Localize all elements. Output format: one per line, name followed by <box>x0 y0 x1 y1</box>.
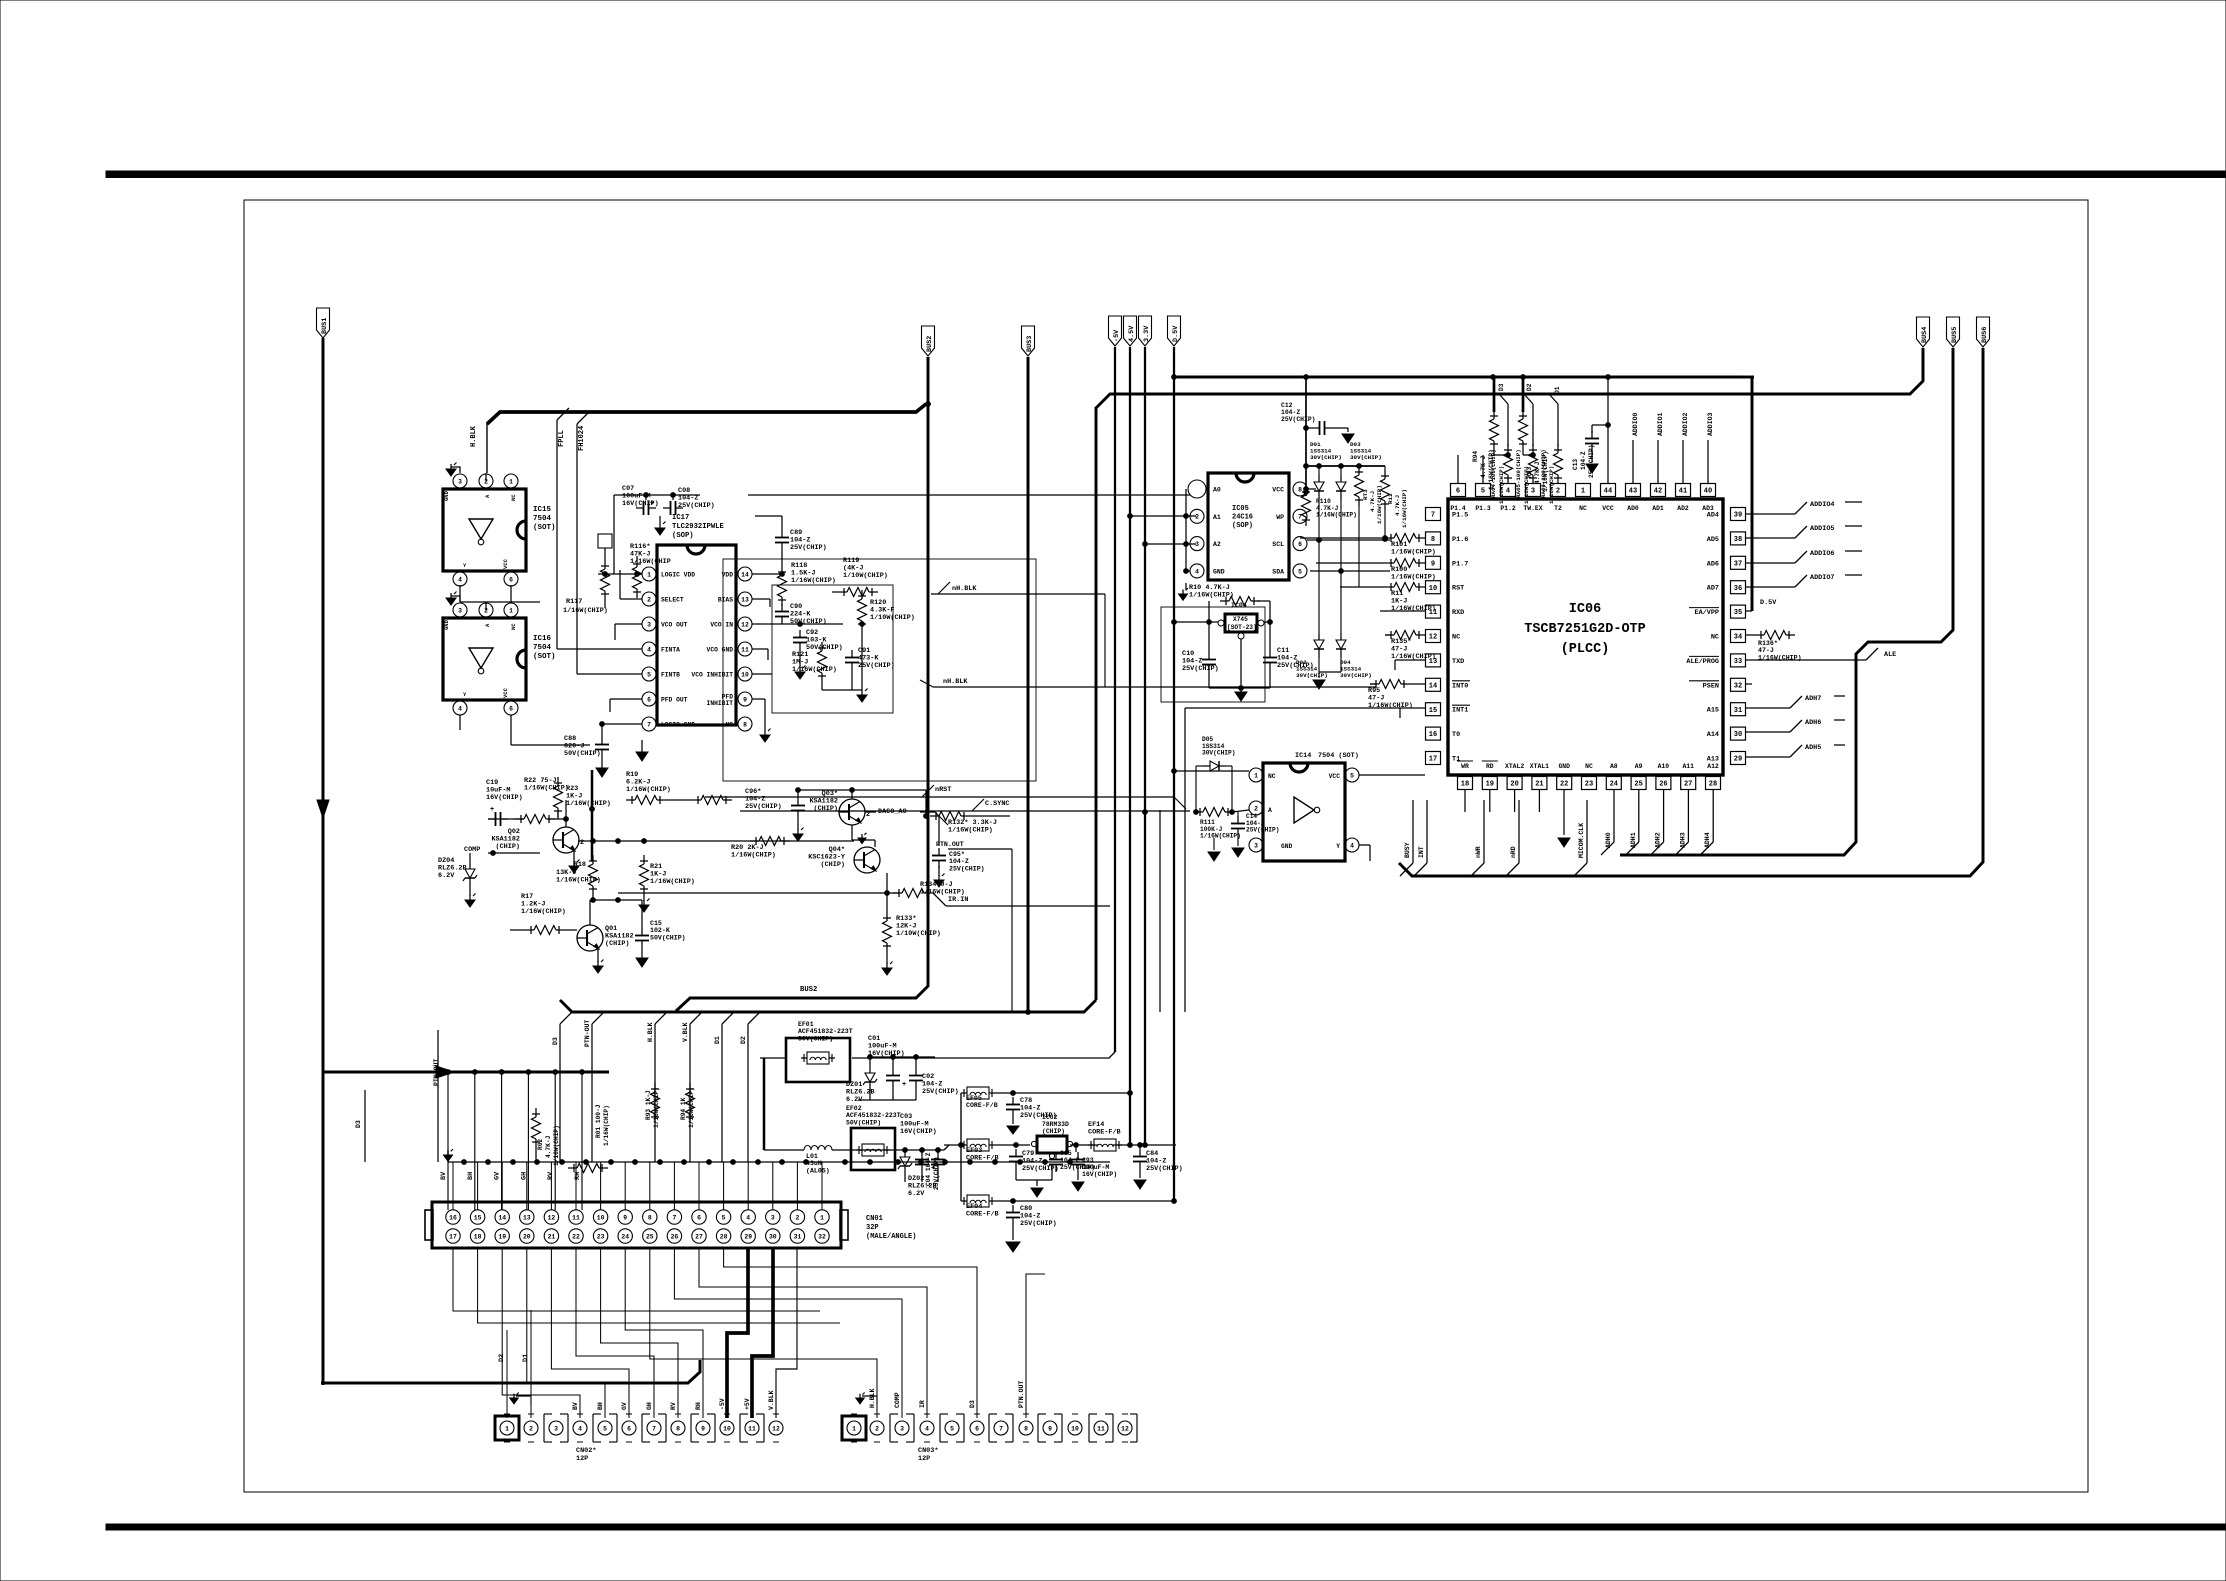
wire drop BH <box>467 1070 477 1210</box>
label nRD <box>1506 800 1519 876</box>
resistor RA64 <box>1490 444 1513 504</box>
svg-text:ADDIO0: ADDIO0 <box>1632 412 1639 436</box>
svg-text:nH.BLK: nH.BLK <box>952 585 977 593</box>
svg-text:104-Z: 104-Z <box>1580 451 1587 470</box>
svg-text:IR: IR <box>919 1400 926 1408</box>
svg-text:VCC: VCC <box>502 687 509 698</box>
wire IC14 out <box>1359 845 1370 861</box>
svg-text:T0: T0 <box>1452 731 1460 739</box>
svg-text:14: 14 <box>741 571 749 578</box>
svg-text:17: 17 <box>449 1233 457 1240</box>
filter EF01 <box>760 1021 853 1082</box>
transistor Q04 <box>808 846 880 873</box>
svg-text:R94 1K: R94 1K <box>680 1097 687 1120</box>
svg-text:AD4: AD4 <box>1707 512 1719 520</box>
svg-text:BUS2: BUS2 <box>926 336 934 352</box>
svg-text:1/16W(CHIP): 1/16W(CHIP) <box>688 1087 695 1128</box>
resistor RA65 <box>1515 444 1538 504</box>
svg-text:MICOM.CLK: MICOM.CLK <box>1578 823 1585 858</box>
svg-text:11: 11 <box>748 1425 756 1432</box>
ground C93 <box>1072 1172 1084 1191</box>
capacitor C07 <box>622 485 659 515</box>
resistor R132 <box>930 812 997 835</box>
svg-text:1/10W(CHIP): 1/10W(CHIP) <box>896 930 941 938</box>
inverter IC14 7504 <box>1249 752 1359 861</box>
svg-text:12: 12 <box>548 1214 556 1221</box>
svg-text:P1.2: P1.2 <box>1500 505 1516 512</box>
svg-text:R117: R117 <box>566 598 582 606</box>
svg-text:4: 4 <box>925 1425 929 1432</box>
svg-text:A0: A0 <box>1213 487 1221 494</box>
wire EF03 gnd <box>1016 1166 1052 1197</box>
svg-text:NC: NC <box>1452 634 1460 642</box>
svg-text:1/16W(CHIP): 1/16W(CHIP) <box>553 1125 560 1166</box>
wire scl row <box>1307 539 1390 541</box>
svg-text:VCO IN: VCO IN <box>710 622 733 629</box>
resistor RA66 <box>1540 444 1563 504</box>
svg-text:C05: C05 <box>1060 1150 1072 1157</box>
wire VCO IN <box>752 622 864 627</box>
svg-text:C93: C93 <box>1082 1157 1094 1164</box>
svg-text:18: 18 <box>1461 781 1469 789</box>
svg-text:COMP: COMP <box>464 846 480 854</box>
svg-text:6: 6 <box>1298 541 1302 548</box>
capacitor C14 <box>1231 812 1279 857</box>
wire Q03-Q04 <box>852 825 875 847</box>
svg-text:4.7K-J: 4.7K-J <box>545 1135 552 1158</box>
ground C84 <box>1134 1169 1146 1189</box>
svg-text:P1.3: P1.3 <box>1475 505 1491 512</box>
resistor R93b <box>645 1083 660 1128</box>
svg-text:6: 6 <box>697 1214 701 1221</box>
svg-text:ADH6: ADH6 <box>1805 719 1821 727</box>
label ADH1 <box>1626 790 1639 855</box>
svg-text:FPLL: FPLL <box>558 430 566 447</box>
svg-text:50V(CHIP): 50V(CHIP) <box>650 934 686 941</box>
svg-text:(SOP): (SOP) <box>672 532 694 540</box>
wire long drop2 <box>1159 810 1161 1012</box>
svg-text:100uF-M: 100uF-M <box>1082 1164 1109 1171</box>
wire IC17 pin2 select <box>620 570 642 599</box>
label FPLL <box>558 430 566 447</box>
svg-text:FINTA: FINTA <box>661 647 680 654</box>
svg-text:SCL: SCL <box>1272 541 1284 548</box>
wire row2 stubs <box>905 1172 938 1182</box>
wire EF01 to L01 <box>764 1058 798 1150</box>
wire IC17 pin3 <box>615 624 642 640</box>
svg-text:15: 15 <box>1429 707 1437 715</box>
label ADDIO3 <box>1707 412 1714 483</box>
wire to IC14 A <box>1143 810 1249 815</box>
svg-text:A10: A10 <box>1658 763 1670 770</box>
svg-text:32: 32 <box>1734 682 1742 690</box>
svg-text:50V(CHIP): 50V(CHIP) <box>846 1119 881 1126</box>
svg-text:A1: A1 <box>1213 514 1221 521</box>
svg-text:P1.7: P1.7 <box>1452 560 1468 568</box>
wire -5V trunk and EF01 row <box>852 347 1115 1058</box>
svg-text:IC14: IC14 <box>1295 752 1311 760</box>
svg-text:1/16W(CHIP): 1/16W(CHIP) <box>1391 605 1436 613</box>
svg-text:44: 44 <box>1604 488 1612 496</box>
svg-text:1/16W(CHIP): 1/16W(CHIP) <box>792 666 837 674</box>
svg-text:SDA: SDA <box>1272 568 1284 575</box>
svg-text:RD: RD <box>1486 763 1494 770</box>
svg-text:D1: D1 <box>522 1354 530 1362</box>
svg-text:GH: GH <box>646 1402 653 1410</box>
wire BIAS <box>752 599 770 607</box>
svg-text:GND: GND <box>443 490 450 501</box>
svg-text:22: 22 <box>1560 781 1568 789</box>
capacitor C05 <box>1049 1150 1095 1172</box>
svg-text:R94: R94 <box>1472 451 1479 462</box>
wire FPLL <box>557 408 642 649</box>
zener DZ01 <box>846 1055 877 1104</box>
svg-text:7: 7 <box>1431 512 1435 520</box>
svg-text:1/16W(CHIP): 1/16W(CHIP) <box>1391 549 1436 557</box>
svg-text:R136*: R136* <box>1758 640 1778 647</box>
capacitor C92 <box>793 629 843 679</box>
svg-text:ACF451832-223T: ACF451832-223T <box>798 1028 853 1035</box>
svg-text:30: 30 <box>1734 731 1742 739</box>
wire IC15 vcc stub <box>510 585 512 602</box>
wire BUS6 trunk <box>1399 348 1983 876</box>
svg-text:C.SYNC: C.SYNC <box>985 800 1009 808</box>
svg-text:3: 3 <box>1195 541 1199 548</box>
svg-text:NC: NC <box>1579 505 1587 512</box>
svg-text:43: 43 <box>1629 488 1637 496</box>
wire FPLL/H.BLK branch <box>487 402 930 473</box>
capacitor C19 <box>486 779 523 826</box>
inverter IC16 <box>443 592 556 716</box>
wire harness CN01-CN02 <box>453 1248 1045 1418</box>
svg-text:D2: D2 <box>498 1354 506 1362</box>
svg-text:VCO GND: VCO GND <box>707 647 734 654</box>
svg-text:25V(CHIP): 25V(CHIP) <box>1182 665 1219 673</box>
wire sda row <box>1310 570 1390 572</box>
svg-text:8: 8 <box>648 1214 652 1221</box>
svg-text:WP: WP <box>1276 514 1284 521</box>
svg-text:11: 11 <box>572 1214 580 1221</box>
svg-text:L01: L01 <box>806 1153 818 1160</box>
svg-text:D3: D3 <box>552 1037 559 1045</box>
svg-text:16V(CHIP): 16V(CHIP) <box>1082 1171 1117 1178</box>
svg-text:AD5: AD5 <box>1707 536 1719 544</box>
wire drop GV <box>494 1070 504 1210</box>
svg-text:RV: RV <box>670 1402 677 1410</box>
svg-text:28: 28 <box>1709 781 1717 789</box>
wire ADH6 <box>1746 719 1845 732</box>
svg-text:32: 32 <box>818 1233 826 1240</box>
svg-text:4: 4 <box>1506 488 1510 496</box>
svg-text:TW.EX: TW.EX <box>1523 505 1542 512</box>
svg-text:4.7K-J: 4.7K-J <box>1369 491 1376 512</box>
box IC04 outline <box>1161 607 1265 702</box>
svg-text:ACF451832-223T: ACF451832-223T <box>846 1112 901 1119</box>
svg-text:7: 7 <box>652 1425 656 1432</box>
svg-text:WR: WR <box>1461 763 1469 770</box>
svg-text:1: 1 <box>820 1214 824 1221</box>
wire Q02-Q04 row <box>578 839 854 844</box>
wire ADDIO4 <box>1746 501 1862 514</box>
wire IC05 gnd <box>1179 489 1191 600</box>
wire ADDIO5 <box>1746 525 1862 538</box>
svg-text:EF01: EF01 <box>798 1021 814 1028</box>
svg-text:8: 8 <box>743 721 747 728</box>
svg-text:1/16W(CHIP): 1/16W(CHIP) <box>603 1105 610 1146</box>
svg-text:IC05: IC05 <box>1232 505 1249 513</box>
page frame bottom rule <box>106 1524 2226 1530</box>
net flag BUS2 <box>922 326 935 356</box>
svg-text:22: 22 <box>572 1233 580 1240</box>
svg-text:4: 4 <box>578 1425 582 1432</box>
svg-text:30V(CHIP): 30V(CHIP) <box>1350 454 1382 461</box>
label DACO_AO <box>878 808 907 816</box>
svg-text:CN03*: CN03* <box>918 1447 938 1455</box>
wire drop H.BLK <box>647 1012 667 1162</box>
svg-text:50V(CHIP): 50V(CHIP) <box>790 618 827 626</box>
wire nRST <box>705 785 1186 809</box>
svg-text:9: 9 <box>1048 1425 1052 1432</box>
svg-text:VCO OUT: VCO OUT <box>661 622 688 629</box>
page frame top rule <box>106 171 2226 178</box>
svg-text:12: 12 <box>1121 1425 1129 1432</box>
wire PFD INHIBIT gnd <box>752 699 771 742</box>
wire drop D1 <box>714 1012 734 1162</box>
svg-text:6.2V: 6.2V <box>438 872 455 880</box>
svg-text:26: 26 <box>671 1233 679 1240</box>
svg-text:VCC: VCC <box>1602 505 1614 512</box>
svg-text:2: 2 <box>529 1425 533 1432</box>
svg-text:2: 2 <box>580 839 584 847</box>
svg-text:1/16W(CHIP): 1/16W(CHIP) <box>1316 512 1357 519</box>
svg-text:39: 39 <box>1734 512 1742 520</box>
svg-text:V.BLK: V.BLK <box>768 1390 775 1410</box>
svg-text:1/16W(CHIP): 1/16W(CHIP) <box>521 908 566 916</box>
svg-text:NC: NC <box>725 722 733 729</box>
wire 3.3V trunk <box>1144 347 1146 1145</box>
capacitor C91 <box>845 647 895 670</box>
svg-text:8: 8 <box>1431 536 1435 544</box>
svg-text:40: 40 <box>1704 488 1712 496</box>
svg-text:30V(CHIP): 30V(CHIP) <box>1202 750 1235 757</box>
wire VCO INHIBIT <box>752 673 772 675</box>
wire TXD <box>1395 660 1426 670</box>
svg-text:+: + <box>902 1081 906 1089</box>
svg-text:25V(CHIP): 25V(CHIP) <box>1146 1165 1183 1173</box>
wire IC05 vcc <box>1304 487 1316 492</box>
label BUS2 <box>800 986 817 994</box>
svg-text:(AL05): (AL05) <box>806 1167 830 1174</box>
svg-text:25V(CHIP): 25V(CHIP) <box>922 1088 959 1096</box>
wire drop RV <box>547 1070 557 1210</box>
svg-text:(MALE/ANGLE): (MALE/ANGLE) <box>866 1233 916 1241</box>
svg-text:RH: RH <box>695 1402 702 1410</box>
wire R132 node <box>924 790 929 818</box>
label ADDIO0 <box>1632 412 1639 483</box>
svg-text:6: 6 <box>509 705 513 712</box>
wire PFD OUT <box>610 699 642 712</box>
svg-text:30V(CHIP): 30V(CHIP) <box>1340 672 1372 679</box>
svg-text:12P: 12P <box>918 1455 930 1463</box>
svg-text:PSEN: PSEN <box>1703 682 1719 690</box>
inverter IC15 <box>443 463 556 587</box>
svg-text:10: 10 <box>1429 585 1437 593</box>
svg-text:V.BLK: V.BLK <box>682 1022 689 1042</box>
svg-text:19: 19 <box>498 1233 506 1240</box>
svg-text:VCC: VCC <box>502 558 509 569</box>
svg-text:11: 11 <box>741 646 749 653</box>
regulator IC02 <box>1031 1114 1072 1159</box>
svg-text:D3: D3 <box>1498 383 1505 391</box>
svg-text:3: 3 <box>1531 488 1535 496</box>
svg-text:6.2V: 6.2V <box>908 1190 925 1198</box>
svg-text:BH: BH <box>467 1172 475 1180</box>
svg-text:5: 5 <box>950 1425 954 1432</box>
wire diode row <box>1306 464 1385 469</box>
svg-text:1/16W(CHIP): 1/16W(CHIP) <box>566 800 611 808</box>
svg-text:25V(CHIP): 25V(CHIP) <box>678 502 715 510</box>
svg-text:7504: 7504 <box>533 644 552 652</box>
svg-text:23: 23 <box>1585 781 1593 789</box>
ground Q02 <box>569 851 580 873</box>
svg-text:6: 6 <box>627 1425 631 1432</box>
svg-text:10: 10 <box>597 1214 605 1221</box>
svg-text:CORE-F/B: CORE-F/B <box>966 1211 999 1219</box>
resistor R10 <box>1189 584 1260 606</box>
svg-text:INT1: INT1 <box>1452 707 1468 715</box>
zener DZ04 <box>438 857 477 907</box>
svg-text:31: 31 <box>1734 707 1742 715</box>
svg-text:19: 19 <box>1486 781 1494 789</box>
svg-text:C13: C13 <box>1572 459 1579 470</box>
svg-text:IC17: IC17 <box>672 514 689 522</box>
svg-text:XTAL1: XTAL1 <box>1530 763 1549 770</box>
wire ADDIO6 <box>1746 550 1862 563</box>
capacitor C89 <box>755 516 827 552</box>
svg-text:GV: GV <box>494 1171 502 1180</box>
label MICOM.CLK <box>1574 800 1587 876</box>
svg-text:AD0: AD0 <box>1627 505 1639 512</box>
svg-text:8: 8 <box>1298 486 1302 493</box>
svg-text:26: 26 <box>1659 781 1667 789</box>
svg-text:7: 7 <box>999 1425 1003 1432</box>
svg-text:C04 104-Z: C04 104-Z <box>925 1152 932 1186</box>
schematic border <box>244 200 2088 1492</box>
svg-text:(SOT): (SOT) <box>533 524 556 532</box>
svg-text:50V(CHIP): 50V(CHIP) <box>564 750 601 758</box>
svg-text:6: 6 <box>509 576 513 583</box>
net flag BUS1 <box>317 308 330 338</box>
wire R132 out <box>970 815 1010 817</box>
svg-text:R93 1K-J: R93 1K-J <box>645 1090 652 1120</box>
svg-text:ALE/PROG: ALE/PROG <box>1686 658 1719 666</box>
wire 4.5V trunk <box>1129 347 1131 1145</box>
svg-text:BUS2: BUS2 <box>800 986 817 994</box>
svg-text:GV: GV <box>621 1402 628 1410</box>
svg-text:25V(CHIP): 25V(CHIP) <box>1246 827 1279 834</box>
resistor R20 <box>731 837 790 860</box>
wire A0 line <box>748 494 1190 496</box>
net flag BUS4 <box>1917 317 1930 347</box>
svg-text:3: 3 <box>900 1425 904 1432</box>
svg-text:NC: NC <box>1711 634 1719 642</box>
net flag BUS3 <box>1022 326 1035 356</box>
svg-text:4: 4 <box>1350 842 1354 849</box>
svg-text:24C16: 24C16 <box>1232 514 1253 522</box>
svg-text:4: 4 <box>746 1214 750 1221</box>
wire vcc drop <box>1305 377 1307 489</box>
svg-text:5: 5 <box>722 1214 726 1221</box>
svg-text:2: 2 <box>1556 488 1560 496</box>
svg-text:R18: R18 <box>574 861 586 869</box>
svg-text:ADH7: ADH7 <box>1805 695 1821 703</box>
svg-text:1/16W(CHIP): 1/16W(CHIP) <box>1189 592 1234 600</box>
svg-text:36: 36 <box>1734 585 1742 593</box>
svg-text:D2: D2 <box>1526 383 1533 391</box>
capacitor C08 <box>655 487 715 535</box>
ground R111 <box>1208 838 1220 861</box>
filter EF03 <box>944 1139 999 1163</box>
svg-text:4: 4 <box>458 705 462 712</box>
svg-text:X745: X745 <box>1233 616 1248 623</box>
svg-text:13: 13 <box>741 596 749 603</box>
wire BUS5 trunk ADH bus <box>1620 348 1953 855</box>
wire BUS2 trunk <box>676 357 928 1011</box>
svg-text:31: 31 <box>794 1233 802 1240</box>
svg-text:COMP: COMP <box>894 1392 901 1408</box>
svg-text:4: 4 <box>458 576 462 583</box>
svg-text:IR.IN: IR.IN <box>948 896 968 904</box>
microcontroller IC06 TSCB7251G2D-OTP <box>1426 484 1746 790</box>
svg-text:VCC: VCC <box>1329 773 1341 780</box>
svg-text:25V(CHIP): 25V(CHIP) <box>1022 1165 1059 1173</box>
capacitor C80 <box>1006 1205 1057 1252</box>
svg-text:38: 38 <box>1734 536 1742 544</box>
svg-text:ADDIO1: ADDIO1 <box>1657 412 1664 436</box>
svg-text:GND: GND <box>443 619 450 630</box>
wire EF block left <box>960 1093 962 1201</box>
svg-text:1/16W(CHIP): 1/16W(CHIP) <box>1200 833 1241 840</box>
svg-text:LOGIC GND: LOGIC GND <box>661 722 695 729</box>
svg-text:25V(CHIP): 25V(CHIP) <box>745 803 782 811</box>
svg-text:21: 21 <box>548 1233 556 1240</box>
resistor R22 <box>515 777 569 824</box>
svg-text:102-K: 102-K <box>650 927 670 934</box>
svg-text:24: 24 <box>621 1233 629 1240</box>
wire -5V +5V thick routes <box>727 1248 797 1418</box>
svg-text:33: 33 <box>1734 658 1742 666</box>
resistor R17 <box>510 893 566 935</box>
svg-text:BUS6: BUS6 <box>1981 327 1989 343</box>
label ADH3 <box>1675 790 1688 855</box>
wire IC17 pin1 <box>598 573 642 575</box>
resistor R133 <box>882 873 941 975</box>
svg-text:1/16W(CHIP): 1/16W(CHIP) <box>563 607 608 615</box>
svg-text:16: 16 <box>1429 731 1437 739</box>
svg-text:3.3V: 3.3V <box>1143 325 1151 342</box>
transistor Q02 <box>491 827 584 853</box>
resistor R110 <box>1302 486 1357 526</box>
svg-text:28: 28 <box>720 1233 728 1240</box>
svg-text:ADH1: ADH1 <box>1630 832 1637 848</box>
svg-text:34: 34 <box>1734 634 1742 642</box>
svg-text:27: 27 <box>695 1233 703 1240</box>
svg-text:BUS5: BUS5 <box>1951 327 1959 343</box>
svg-text:7504 (SOT): 7504 (SOT) <box>1318 752 1359 760</box>
svg-text:GND: GND <box>1213 568 1225 575</box>
svg-text:1/16W(CHIP): 1/16W(CHIP) <box>626 786 671 794</box>
svg-text:-5V: -5V <box>719 1398 726 1410</box>
